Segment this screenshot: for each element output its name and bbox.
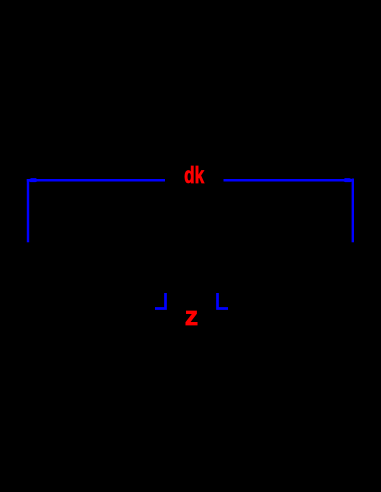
node: bottom-left corner mark [155, 293, 166, 309]
wire: left vertical boundary [27, 179, 29, 242]
svg-text:z: z [185, 301, 198, 331]
arrowhead right (pointing right) [344, 178, 352, 182]
wire: dimension line right segment [224, 179, 355, 182]
node: bottom-right corner mark [218, 293, 229, 309]
wire: dimension line left segment [27, 179, 165, 182]
svg-text:dk: dk [184, 162, 204, 188]
wire: right vertical boundary [352, 179, 354, 243]
arrowhead left (pointing left) [29, 178, 37, 182]
